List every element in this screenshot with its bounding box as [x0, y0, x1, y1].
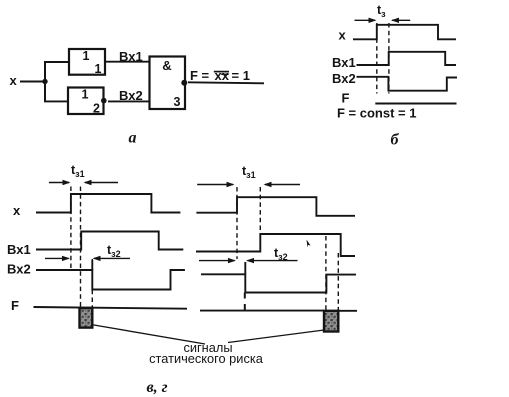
t31 arrowhead left-pointing (v): [84, 180, 92, 185]
marker dashed at x rise (g): [236, 187, 238, 259]
svg-text:в, г: в, г: [147, 379, 168, 396]
svg-text:1: 1: [95, 62, 102, 76]
svg-text:= 1: = 1: [232, 68, 250, 83]
svg-text:F: F: [342, 91, 350, 106]
svg-text:Вх2: Вх2: [119, 88, 143, 103]
t32 arrow right segment (v): [94, 257, 130, 259]
t31 arrow right segment (v): [85, 182, 118, 184]
t3 arrowhead right-pointing: [369, 18, 377, 23]
wire to gate 2 input: [44, 100, 68, 102]
gate 2 inversion dot: [101, 98, 107, 104]
marker dashed at x rise (v): [70, 187, 72, 270]
svg-text:2: 2: [93, 102, 100, 116]
waveform Bx1 (v): [36, 232, 183, 250]
waveform F constant (b): [375, 103, 456, 105]
t32 arrow right segment (g): [248, 260, 298, 262]
waveform Bx2 (b): [357, 77, 458, 91]
gate 2 (inverter "1") body: [68, 88, 104, 115]
svg-text:x: x: [13, 203, 21, 218]
waveform Bx2 (g): [201, 274, 356, 292]
svg-text:Вх1: Вх1: [119, 49, 143, 64]
t32 arrow left segment (v): [45, 257, 69, 259]
cursor artifact mark: [307, 240, 311, 248]
pointer line from left hazard pulse: [91, 325, 205, 345]
waveform x (g): [196, 197, 355, 216]
formula inner overline: [221, 73, 228, 75]
marker dashed at Bx1 rise (g): [259, 187, 261, 234]
svg-text:F = const = 1: F = const = 1: [337, 106, 416, 121]
waveform F right part (g): [338, 310, 357, 312]
waveform Bx1 (b): [357, 52, 457, 65]
tick extending Bx2 fall to t32 arrow (v): [91, 260, 93, 270]
NAND gate inversion dot: [181, 80, 187, 86]
marker tick below Bx2 fall to F line lower part (g): [244, 304, 246, 310]
tick extending Bx2 fall to t32 arrow (g): [244, 262, 246, 274]
hazard pulse rectangle (v): [80, 308, 93, 328]
svg-text:а: а: [129, 130, 137, 147]
svg-text:Вх2: Вх2: [332, 71, 356, 86]
t31 arrow left segment (g): [197, 184, 233, 186]
marker tick below Bx2 fall to F line (g): [244, 293, 246, 299]
marker dashed at Bx2 fall (v): [91, 259, 93, 308]
svg-text:xx: xx: [215, 68, 230, 83]
t32 arrowhead left-pointing (v): [93, 256, 101, 261]
t32 arrowhead right-pointing (g): [228, 258, 236, 263]
svg-text:1: 1: [82, 88, 89, 102]
t32 arrow left segment (g): [199, 260, 235, 262]
waveform Bx2 (v): [36, 270, 185, 290]
t32 arrowhead left-pointing (g): [246, 258, 254, 263]
wire Bx1: [105, 61, 150, 63]
hazard pulse rectangle (g): [324, 311, 338, 332]
svg-text:F =: F =: [190, 68, 210, 83]
waveform F (v): [34, 307, 188, 309]
t31 arrowhead right-pointing (g): [227, 182, 235, 187]
t31 arrowhead right-pointing (v): [63, 180, 71, 185]
formula outer overline: [214, 71, 229, 73]
marker dashed at Bx2 rise (g): [325, 236, 327, 311]
t32 arrowhead right-pointing (v): [62, 256, 70, 261]
waveform Bx1 (g): [196, 234, 355, 256]
t3 arrowhead left-pointing: [391, 18, 399, 23]
waveform x (b): [353, 25, 456, 40]
waveform F left part (g): [200, 310, 324, 312]
t3 arrow left segment: [355, 19, 376, 21]
t31 arrow left segment (v): [49, 182, 69, 184]
svg-text:x: x: [339, 28, 347, 43]
output formula text F = xx = 1: [190, 68, 250, 83]
svg-text:&: &: [162, 58, 171, 73]
svg-text:Вх1: Вх1: [7, 242, 31, 257]
svg-text:Вх2: Вх2: [7, 262, 31, 277]
marker dashed at Bx1 rise (v): [80, 187, 82, 309]
marker dashed line at Bx transition (b): [388, 23, 390, 94]
NAND gate 3 body: [150, 57, 186, 110]
waveform x (v): [36, 194, 180, 213]
svg-text:статического риска: статического риска: [149, 351, 264, 366]
wire output F: [188, 82, 264, 83]
svg-text:б: б: [391, 132, 400, 149]
wire Bx2: [108, 100, 150, 102]
svg-text:1: 1: [83, 49, 90, 63]
gate 1 (repeater "1") body: [69, 49, 105, 75]
t31 arrowhead left-pointing (g): [264, 182, 272, 187]
marker dashed line at x rise (b): [376, 23, 378, 94]
wire branch vertical: [44, 62, 46, 101]
svg-text:F: F: [11, 298, 19, 313]
node: input branch junction: [42, 79, 47, 84]
svg-text:x: x: [10, 73, 18, 88]
wire to gate 1 input: [44, 61, 69, 63]
t3 arrow right segment: [392, 19, 410, 21]
t31 arrow right segment (g): [265, 184, 300, 186]
wire input x: [20, 81, 45, 83]
svg-text:Вх1: Вх1: [332, 55, 356, 70]
svg-text:3: 3: [174, 95, 181, 109]
pointer line from right hazard pulse: [228, 330, 324, 343]
marker dashed at Bx1 fall (g): [337, 253, 339, 311]
